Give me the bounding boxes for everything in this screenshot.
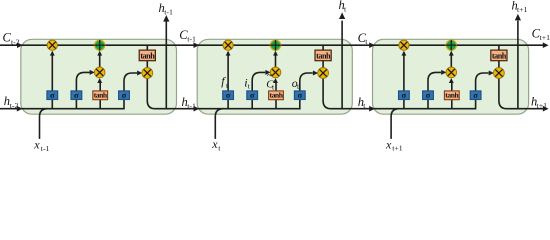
cell 2: arrowhead h output up	[339, 12, 345, 19]
LSTM cell 1 body	[21, 39, 177, 114]
cell 3: forget sigma box	[399, 90, 410, 100]
cell 3: wire top tanh down into output X gate	[498, 61, 500, 68]
wire: cell state line C (horizontal, y=45)	[0, 44, 543, 46]
cell 3: inner multiply X gate (i*Ctilde)	[446, 67, 457, 78]
cell 1: arrowhead into inner X gate from left	[90, 70, 95, 75]
cell 2: forget sigma box	[223, 90, 234, 100]
cell 3: wire sigma box stubs down to h line	[404, 99, 452, 108]
svg-text:t-1: t-1	[187, 101, 196, 110]
arrowhead: C_t+1 output right	[543, 42, 549, 48]
cell 3: wire output sigma up and right into output X gate	[476, 73, 489, 91]
svg-text:σ: σ	[426, 90, 431, 100]
cell 2: wire C line branch down into top tanh	[322, 45, 324, 50]
cell 3: wire sigma-forget up to X gate	[403, 55, 405, 91]
cell 2: wire input sigma up and right into inner X gate	[252, 72, 265, 91]
arrowhead: C_t-1 into cell 2	[194, 42, 200, 48]
svg-text:t+1: t+1	[540, 33, 550, 42]
svg-text:x: x	[211, 137, 218, 151]
svg-text:t-2: t-2	[10, 101, 19, 110]
cell 3: wire output X gate down then right, h output line to right edge	[499, 78, 543, 108]
svg-text:tanh: tanh	[270, 90, 284, 99]
label: o_t output gate cell 2	[292, 76, 300, 91]
label: C_t-2 left input	[3, 30, 20, 46]
svg-text:σ: σ	[250, 90, 255, 100]
arrowhead: C into cell 1	[17, 42, 23, 48]
cell 2: arrowhead into inner X gate from left	[265, 70, 270, 75]
cell 3: arrowhead into output X gate from left	[489, 71, 494, 76]
cell 1: add gate plus	[94, 40, 105, 51]
cell 3: input sigma box	[423, 90, 434, 100]
arrowhead: h_t-1 into cell 2	[194, 106, 200, 112]
svg-text:t-2: t-2	[11, 37, 20, 46]
label: C-tilde_t candidate cell 2	[266, 71, 275, 92]
label: h_t+1 top output cell 3	[512, 0, 528, 14]
svg-text:σ: σ	[473, 90, 478, 100]
cell 2: wire sigma box stubs down to h line	[228, 99, 276, 108]
cell 1: wire C line branch down into top tanh	[146, 45, 148, 50]
cell 2: forget gate multiply X1	[223, 40, 233, 50]
cell 3: wire x input from bottom curving onto h line	[391, 109, 399, 139]
cell 3: arrowhead h output up	[515, 14, 521, 21]
cell 2: add gate plus	[270, 40, 281, 51]
cell 3: output sigma box	[470, 90, 481, 100]
svg-text:t-1: t-1	[187, 35, 196, 44]
cell 1: forget gate multiply X1	[47, 40, 57, 50]
arrowhead: C_t into cell 3	[369, 42, 375, 48]
cell 2: wire output X gate down then right, h line to next cell (ends up into its last sigma)	[323, 78, 476, 108]
cell 1: arrowhead into inner X gate from below	[97, 78, 102, 83]
svg-text:σ: σ	[402, 90, 407, 100]
svg-text:tanh: tanh	[445, 90, 459, 99]
wire: h_t-2 input line into cell 1, ends turning up into last sigma box	[0, 99, 124, 108]
cell 2: wire x input from bottom curving onto h line	[215, 109, 223, 139]
svg-text:tanh: tanh	[316, 51, 331, 60]
label: C_t-1 between cells 1-2	[179, 28, 196, 43]
cell 2: arrowhead into output X gate from left	[313, 71, 318, 76]
cell 3: bottom tanh box (candidate)	[444, 90, 459, 99]
svg-text:t-1: t-1	[164, 7, 173, 16]
label: C_t+1 right output	[532, 27, 550, 42]
cell 3: arrowhead into inner X gate from below	[449, 78, 454, 83]
cell 1: forget sigma box	[47, 90, 58, 100]
label: h_t-1 between cells 1-2	[182, 95, 196, 110]
cell 2: output sigma box	[294, 90, 305, 100]
cell 1: arrowhead into forget X gate	[50, 51, 55, 56]
svg-text:σ: σ	[297, 90, 302, 100]
cell 1: output sigma box	[119, 90, 130, 100]
cell 2: wire top tanh down into output X gate	[322, 61, 324, 68]
cell 2: arrowhead into plus gate from below	[273, 51, 278, 56]
cell 1: wire h branch up through cell top to output arrow	[165, 21, 167, 109]
label: h_t-1 top output cell 1	[159, 1, 173, 16]
label: C_t between cells 2-3	[358, 31, 369, 46]
cell 1: wire top tanh down into output X gate	[146, 61, 148, 68]
svg-text:x: x	[385, 137, 392, 151]
label: x_t-1 bottom input cell 1	[33, 137, 49, 153]
svg-text:t+1: t+1	[392, 144, 403, 153]
LSTM cell 3 body	[373, 39, 529, 114]
arrowhead: h_t into cell 3	[369, 106, 375, 112]
cell 2: top tanh box (output squash)	[315, 50, 331, 61]
cell 1: bottom tanh box (candidate)	[93, 90, 108, 99]
cell 1: output multiply X gate	[142, 68, 153, 79]
label: x_t+1 bottom input cell 3	[385, 137, 403, 152]
svg-text:~: ~	[267, 71, 273, 82]
svg-text:x: x	[33, 137, 40, 151]
cell 2: input sigma box	[247, 90, 258, 100]
cell 3: wire inner X gate up into plus gate	[450, 55, 452, 67]
cell 1: wire inner X gate up into plus gate	[99, 55, 101, 67]
cell 3: wire input sigma up and right into inner X gate	[428, 72, 441, 91]
cell 3: wire C line branch down into top tanh	[498, 45, 500, 50]
cell 3: arrowhead into forget X gate	[402, 51, 407, 56]
cell 1: wire output sigma up and right into output X gate	[124, 73, 137, 91]
cell 2: bottom tanh box (candidate)	[269, 90, 284, 99]
arrowhead: h into cell 1	[17, 106, 23, 112]
svg-text:σ: σ	[50, 90, 55, 100]
cell 1: wire input sigma up and right into inner X gate	[76, 72, 89, 91]
cell 2: wire sigma-forget up to X gate	[227, 55, 229, 91]
cell 1: wire bottom tanh up into inner X gate	[99, 83, 101, 91]
cell 1: arrowhead into plus gate from below	[97, 51, 102, 56]
cell 3: wire bottom tanh up into inner X gate	[451, 83, 453, 91]
arrowhead: h_t+1 output right	[543, 106, 549, 112]
cell 2: wire output sigma up and right into output X gate	[300, 73, 313, 91]
cell 3: top tanh box (output squash)	[491, 50, 507, 61]
cell 1: wire output X gate down then right, h line to next cell (ends up into its last sigma)	[147, 78, 299, 108]
cell 2: inner multiply X gate (i*Ctilde)	[270, 67, 281, 78]
cell 1: arrowhead h output up	[163, 15, 169, 22]
svg-text:t+1: t+1	[537, 101, 548, 110]
cell 1: inner multiply X gate (i*Ctilde)	[94, 67, 105, 78]
label: i_t input gate cell 2	[244, 75, 250, 90]
label: h_t+1 right output	[531, 94, 547, 109]
label: x_t bottom input cell 2	[211, 137, 221, 152]
svg-text:tanh: tanh	[492, 51, 507, 60]
cell 1: wire sigma box stubs down to h line	[52, 99, 100, 108]
cell 1: wire sigma-forget up to X gate	[51, 55, 53, 91]
cell 1: wire x input from bottom curving onto h line	[40, 109, 48, 139]
LSTM cell 2 body	[197, 39, 352, 114]
cell 2: wire inner X gate up into plus gate	[275, 55, 277, 67]
svg-text:t-1: t-1	[41, 144, 50, 153]
cell 2: output multiply X gate	[318, 68, 329, 79]
svg-text:σ: σ	[122, 90, 127, 100]
svg-text:σ: σ	[226, 90, 231, 100]
cell 3: add gate plus	[446, 40, 457, 51]
label: h_t-2 left input	[4, 94, 19, 110]
cell 2: arrowhead into forget X gate	[226, 51, 231, 56]
cell 3: forget gate multiply X1	[399, 40, 409, 50]
svg-text:tanh: tanh	[94, 90, 108, 99]
cell 1: top tanh box (output squash)	[139, 50, 155, 61]
cell 1: arrowhead into output X gate from left	[137, 71, 142, 76]
cell 2: arrowhead into inner X gate from below	[273, 78, 278, 83]
cell 3: arrowhead into plus gate from below	[449, 51, 454, 56]
cell 2: wire h branch up through cell top to output arrow	[341, 21, 343, 109]
svg-text:tanh: tanh	[140, 51, 155, 60]
label: h_t between cells 2-3	[358, 95, 367, 110]
svg-text:t+1: t+1	[517, 5, 528, 14]
cell 1: input sigma box	[71, 90, 82, 100]
cell 3: wire h branch up through cell top to output arrow	[517, 21, 519, 109]
cell 3: arrowhead into inner X gate from left	[441, 70, 446, 75]
svg-text:σ: σ	[74, 90, 79, 100]
label: h_t top output cell 2	[339, 0, 348, 13]
cell 2: wire bottom tanh up into inner X gate	[275, 83, 277, 91]
cell 3: output multiply X gate	[494, 68, 505, 79]
label: f_t forget gate cell 2	[221, 74, 229, 90]
